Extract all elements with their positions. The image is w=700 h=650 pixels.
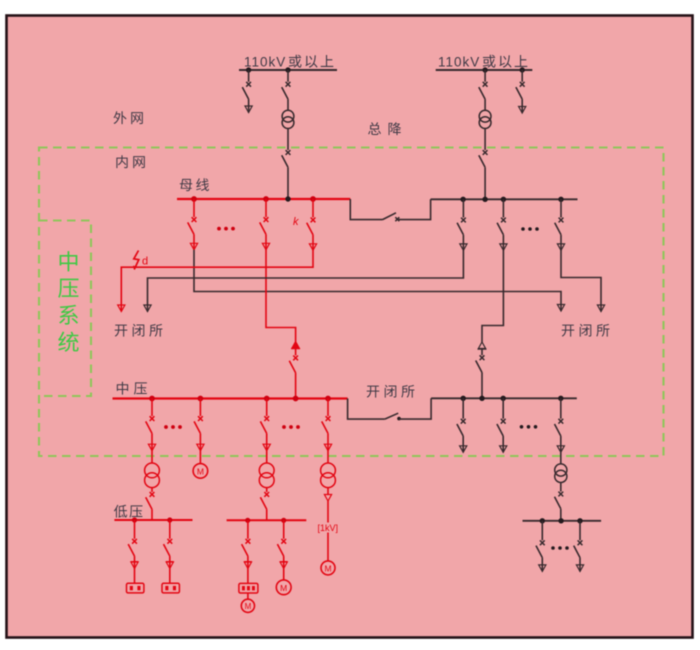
load box bbox=[239, 583, 258, 593]
feeder switch QS15 (red) bbox=[151, 399, 153, 417]
wire to right 开闭所 bbox=[561, 250, 601, 311]
feeder switch QS29 bbox=[541, 521, 543, 541]
ellipsis bbox=[520, 425, 524, 429]
outgoing arrow bbox=[131, 561, 139, 563]
svg-text:110kV: 110kV bbox=[244, 55, 286, 70]
motor M4 bbox=[276, 580, 291, 595]
node bbox=[577, 518, 582, 523]
feeder switch QS7 (red) bbox=[193, 199, 195, 217]
node bbox=[558, 518, 563, 523]
wire bbox=[541, 558, 543, 572]
outgoing arrow bbox=[324, 495, 331, 502]
svg-text:M: M bbox=[245, 602, 252, 611]
ellipsis bbox=[551, 546, 555, 550]
wire bbox=[287, 167, 289, 199]
svg-text:d: d bbox=[142, 256, 148, 268]
arrow into 开闭所 left bbox=[144, 305, 151, 312]
node bbox=[482, 197, 487, 202]
wire bbox=[247, 556, 249, 568]
wire bbox=[199, 433, 201, 450]
wire bbox=[169, 556, 171, 568]
wire bbox=[502, 436, 504, 452]
bus 低压 1 (red) bbox=[114, 519, 192, 521]
bus-tie wire (upper) bbox=[350, 199, 382, 220]
node bbox=[501, 197, 506, 202]
svg-text:k: k bbox=[293, 216, 299, 228]
internal-network dashed boundary bbox=[39, 148, 664, 457]
label 开闭所 (right) bbox=[562, 324, 610, 337]
wire bbox=[579, 558, 581, 572]
wire bbox=[193, 234, 195, 249]
feeder arrow bbox=[500, 244, 507, 251]
wire to right 中压 section bbox=[482, 250, 503, 342]
outgoing arrow bbox=[280, 561, 288, 563]
transformer T2 bbox=[479, 110, 491, 122]
wire bbox=[151, 509, 153, 520]
feeder switch QS17 (red) bbox=[266, 399, 268, 417]
bus 低压 2 (red) bbox=[227, 519, 307, 521]
wire bbox=[151, 488, 153, 492]
fault marker d (lightning) bbox=[134, 251, 139, 270]
label 开闭所 (middle) bbox=[367, 385, 415, 398]
wire to left 开闭所 (dark) bbox=[148, 250, 464, 311]
wire bbox=[484, 129, 486, 151]
ellipsis bbox=[282, 425, 286, 429]
wire bbox=[248, 99, 250, 112]
node bbox=[245, 518, 250, 523]
node bbox=[540, 518, 545, 523]
wire to left 开闭所 (red) bbox=[121, 250, 313, 311]
ellipsis (more feeders) bbox=[217, 227, 221, 231]
bus-tie switch QF2 bbox=[385, 413, 398, 419]
node bbox=[461, 396, 466, 401]
incoming arrow bbox=[292, 342, 299, 349]
label 内网 bbox=[116, 155, 144, 168]
feeder switch QS8 (red) bbox=[265, 199, 267, 217]
feeder switch QS25 bbox=[462, 398, 464, 418]
bus 110kV left bbox=[239, 69, 337, 71]
wire bbox=[481, 373, 483, 399]
label 中压系统 (vertical) bbox=[58, 251, 78, 352]
label 母线 bbox=[180, 178, 209, 191]
switch QS19 (red) bbox=[150, 492, 155, 497]
feeder arrow bbox=[309, 244, 316, 251]
node bbox=[167, 517, 172, 522]
wire bbox=[265, 234, 267, 249]
wire bbox=[266, 451, 268, 463]
switch QS5 bbox=[484, 149, 486, 151]
switch QS4 bbox=[484, 70, 486, 82]
switch QS6 bbox=[521, 70, 523, 82]
wire bbox=[399, 398, 431, 419]
node bbox=[482, 67, 487, 72]
wire bbox=[560, 509, 562, 521]
bus 110kV right bbox=[436, 69, 533, 71]
wire bbox=[327, 501, 329, 561]
wire to right 开闭所 bbox=[194, 250, 561, 311]
feeder switch QS27 bbox=[560, 398, 562, 418]
wire bbox=[287, 99, 289, 110]
outgoing arrow bbox=[539, 565, 546, 572]
node bbox=[460, 197, 465, 202]
switch QS13 bbox=[480, 355, 485, 360]
wire bbox=[295, 348, 297, 355]
motor M1 bbox=[193, 464, 208, 479]
wire bbox=[151, 433, 153, 450]
wire bbox=[283, 569, 285, 580]
feeder switch QS10 (red) bbox=[312, 199, 314, 217]
node bbox=[293, 396, 299, 402]
wire bbox=[462, 235, 464, 251]
label 外网 bbox=[114, 111, 143, 124]
wire bbox=[502, 235, 504, 251]
transformer T3 (red) bbox=[145, 463, 160, 478]
label 开闭所 (left) bbox=[115, 324, 163, 337]
bus bottom-right (dark) bbox=[523, 520, 602, 522]
bus 母线 (red) bbox=[177, 198, 350, 200]
feeder switch QS24 (red) bbox=[283, 520, 285, 539]
node bbox=[198, 396, 204, 402]
transformer T4 (red) bbox=[259, 463, 274, 478]
feeder arrow bbox=[197, 444, 204, 451]
motor M3 bbox=[241, 599, 254, 612]
ellipsis (more feeders) bbox=[521, 227, 525, 231]
wire bbox=[560, 235, 562, 251]
feeder arrow bbox=[190, 243, 197, 250]
feeder arrow bbox=[557, 446, 564, 453]
arrow into 开闭所 right bbox=[597, 305, 604, 312]
wire bbox=[521, 99, 523, 113]
feeder switch QS30 bbox=[579, 521, 581, 541]
node bbox=[285, 67, 290, 72]
motor M2 bbox=[321, 561, 335, 575]
wire bbox=[134, 569, 136, 584]
feeder arrow bbox=[460, 244, 467, 251]
feeder arrow bbox=[557, 244, 564, 251]
wire bbox=[151, 451, 153, 463]
feeder switch QS14 bbox=[560, 199, 562, 217]
reserve feeder arrow bbox=[519, 107, 526, 114]
transformer T5 (red) bbox=[321, 463, 336, 478]
feeder switch QS18 (red) bbox=[327, 399, 329, 417]
wire bbox=[327, 451, 329, 463]
wire bbox=[484, 167, 486, 199]
outgoing arrow bbox=[576, 565, 583, 572]
svg-text:110kV: 110kV bbox=[438, 55, 480, 70]
outgoing arrow bbox=[244, 561, 252, 563]
wire bbox=[266, 488, 268, 492]
wire bbox=[169, 569, 171, 584]
outgoing arrow bbox=[166, 561, 174, 563]
wire bbox=[560, 452, 562, 464]
wire bbox=[295, 373, 297, 399]
transformer T1 bbox=[282, 110, 294, 122]
wire bbox=[560, 436, 562, 452]
wire to middle 开闭所 bbox=[266, 250, 296, 342]
node bbox=[479, 396, 484, 401]
feeder switch QS23 (red) bbox=[247, 520, 249, 539]
node bbox=[325, 396, 331, 402]
bus 中压 (dark, right) bbox=[431, 397, 577, 399]
bus-tie wire (中压) bbox=[348, 399, 385, 420]
bus 中压 (red) bbox=[113, 397, 348, 399]
node bbox=[149, 396, 155, 402]
label 低压 bbox=[114, 505, 143, 518]
incoming arrow bbox=[478, 342, 485, 349]
node bbox=[132, 517, 137, 522]
node bbox=[558, 197, 563, 202]
feeder arrow bbox=[262, 243, 269, 250]
switch QS20 (red) bbox=[264, 492, 269, 497]
wire bbox=[481, 349, 483, 356]
switch QS9 (red) bbox=[293, 356, 298, 361]
node bbox=[263, 196, 269, 202]
wire bbox=[199, 451, 201, 464]
wire bbox=[287, 129, 289, 151]
wire bbox=[266, 509, 268, 520]
node bbox=[281, 518, 286, 523]
feeder switch QS26 bbox=[502, 398, 504, 418]
node bbox=[191, 196, 197, 202]
feeder switch QS22 (red) bbox=[169, 520, 171, 539]
transformer T6 bbox=[555, 464, 567, 476]
load box bbox=[127, 583, 144, 593]
feeder switch QS16 (red) bbox=[199, 399, 201, 417]
switch QS28 bbox=[558, 492, 563, 497]
node bbox=[264, 396, 270, 402]
label [1kV] bbox=[318, 523, 338, 533]
medium-voltage system dashed sub-box bbox=[39, 221, 91, 397]
wire bbox=[134, 556, 136, 568]
wire bbox=[462, 436, 464, 452]
wire bbox=[560, 483, 562, 492]
node bbox=[246, 67, 251, 72]
feeder switch QS11 bbox=[462, 199, 464, 217]
wire bbox=[312, 235, 314, 251]
wire bbox=[327, 488, 329, 495]
svg-text:M: M bbox=[280, 583, 287, 593]
svg-text:M: M bbox=[324, 563, 331, 573]
feeder arrow bbox=[245, 106, 252, 113]
bus-tie switch QF1 bbox=[383, 213, 397, 220]
wire bbox=[266, 433, 268, 450]
feeder switch QS21 (red) bbox=[134, 520, 136, 539]
node (transformer tie-in) bbox=[285, 196, 290, 201]
arrow into 开闭所 right bbox=[557, 305, 564, 312]
node bbox=[310, 196, 316, 202]
wire bbox=[247, 569, 249, 584]
load box bbox=[162, 583, 179, 593]
node bbox=[501, 396, 506, 401]
feeder arrow bbox=[460, 446, 467, 453]
svg-text:[1kV]: [1kV] bbox=[317, 523, 338, 533]
wire bbox=[283, 556, 285, 568]
wire bbox=[484, 99, 486, 110]
label 总降 bbox=[368, 122, 401, 135]
bus 总降 secondary (right, dark) bbox=[431, 198, 578, 200]
arrow into 开闭所 left bbox=[118, 305, 125, 312]
switch QS1 bbox=[248, 70, 250, 82]
feeder arrow bbox=[500, 446, 507, 453]
wire bbox=[247, 593, 249, 599]
feeder arrow bbox=[263, 444, 270, 451]
wire bbox=[399, 199, 431, 219]
feeder arrow bbox=[148, 444, 155, 451]
svg-text:M: M bbox=[197, 466, 204, 476]
feeder switch QS12 bbox=[502, 199, 504, 217]
feeder arrow bbox=[324, 444, 331, 451]
node bbox=[520, 67, 525, 72]
ellipsis bbox=[164, 425, 168, 429]
switch QS3 bbox=[287, 149, 289, 151]
wire bbox=[327, 433, 329, 450]
node bbox=[558, 396, 563, 401]
switch QS2 bbox=[287, 70, 289, 82]
label 中压 bbox=[117, 382, 147, 395]
